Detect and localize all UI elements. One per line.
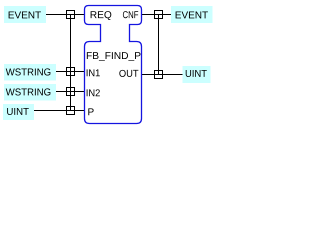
junction square IN1 [67, 68, 75, 76]
pin label P [88, 108, 93, 115]
text of WSTRING label 2 [6, 88, 51, 95]
pin label IN1 [87, 69, 100, 76]
junction square OUT [155, 71, 163, 79]
text of UINT right label [186, 70, 207, 77]
function block FB_FIND_P outline [85, 6, 142, 124]
label box WSTRING input 1 [4, 64, 56, 81]
wire UINT to P [34, 110, 85, 112]
junction square P [67, 107, 75, 115]
wire EVENT to REQ [46, 14, 85, 16]
text of UINT left label [7, 108, 29, 115]
text of EVENT left label [9, 12, 41, 19]
wire right vertical bus [158, 15, 160, 75]
pin label REQ [91, 11, 112, 20]
label box UINT right output [183, 66, 211, 83]
wire WSTRING to IN1 [56, 71, 85, 73]
label box UINT left input [3, 104, 34, 120]
wire OUT to UINT [141, 74, 183, 76]
pin label CNF [123, 11, 138, 18]
text of EVENT right label [176, 12, 208, 19]
wire WSTRING to IN2 [56, 91, 85, 93]
label box WSTRING input 2 [4, 84, 56, 101]
junction square top-right [155, 11, 163, 19]
label box EVENT left input [4, 6, 46, 23]
text of WSTRING label 1 [6, 68, 51, 75]
pin label OUT [119, 70, 138, 77]
junction square top-left [67, 11, 75, 19]
wire left vertical bus [70, 15, 72, 111]
junction square IN2 [67, 88, 75, 96]
block title FB_FIND_P [87, 52, 141, 61]
label box EVENT right output [171, 6, 213, 23]
pin label IN2 [87, 89, 100, 96]
wire CNF to EVENT [141, 14, 171, 16]
